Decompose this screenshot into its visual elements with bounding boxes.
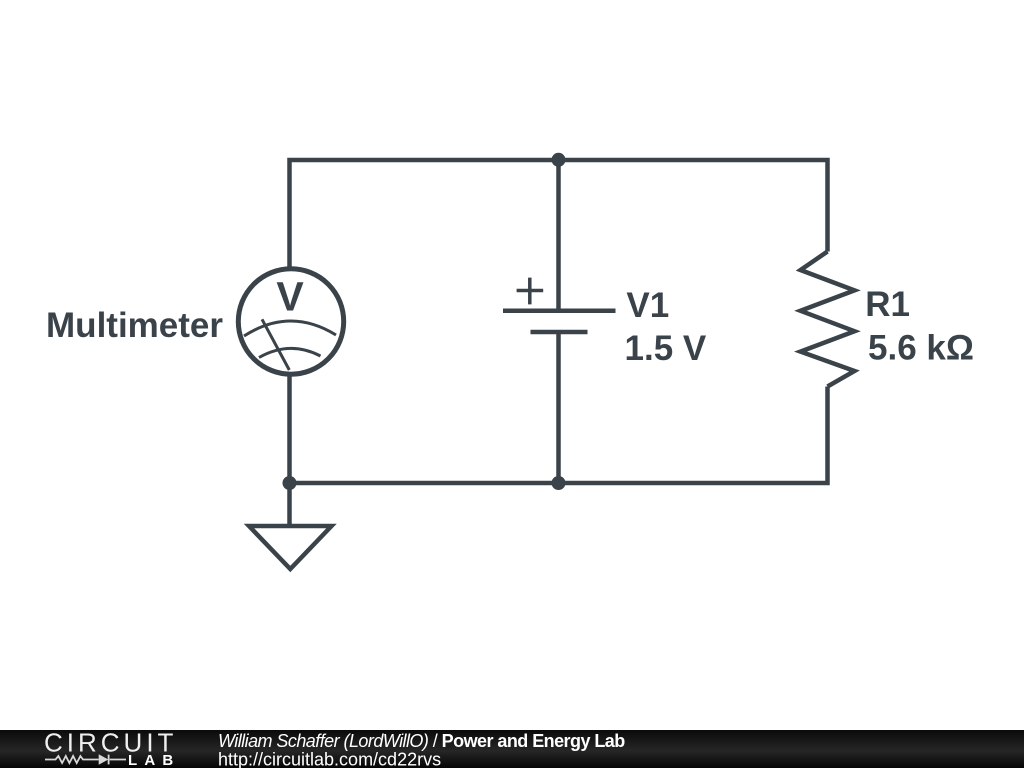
svg-text:5.6 kΩ: 5.6 kΩ [868,329,974,368]
svg-text:R1: R1 [865,285,910,324]
svg-text:LAB: LAB [128,752,180,768]
svg-text:V1: V1 [626,286,669,325]
svg-text:1.5 V: 1.5 V [625,329,707,368]
svg-text:William Schaffer (LordWillO) /: William Schaffer (LordWillO) / Power and… [218,731,625,751]
svg-text:http://circuitlab.com/cd22rvs: http://circuitlab.com/cd22rvs [218,749,441,768]
svg-text:V: V [276,274,304,320]
svg-text:Multimeter: Multimeter [46,306,223,345]
